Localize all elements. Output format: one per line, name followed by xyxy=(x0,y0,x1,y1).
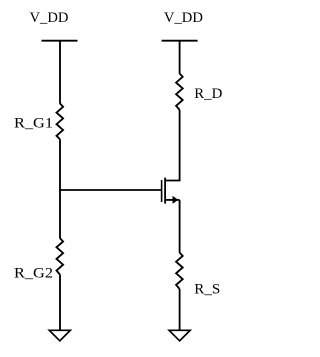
wire: R_G1 bottom to R_G2 top (through gate junction) xyxy=(59,139,61,238)
svg-text:R_S: R_S xyxy=(194,281,220,297)
power symbol V_DD (right rail bar) xyxy=(162,40,198,42)
wire: right rail down to R_D top xyxy=(179,41,181,74)
wire: R_D bottom down and left to MOSFET drain xyxy=(165,110,180,181)
svg-text:R_G1: R_G1 xyxy=(14,115,53,131)
wire: left rail down to R_G1 top xyxy=(59,41,61,104)
ground (right) xyxy=(169,330,190,341)
transistor M1 source lead xyxy=(165,199,180,201)
resistor R_S xyxy=(176,253,183,289)
ground (left) xyxy=(49,330,70,341)
transistor M1 channel bar xyxy=(164,178,166,204)
power symbol V_DD (left rail bar) xyxy=(42,40,78,42)
svg-text:V_DD: V_DD xyxy=(30,10,69,26)
svg-text:R_D: R_D xyxy=(194,86,222,102)
resistor R_G2 xyxy=(57,238,64,274)
wire: R_S bottom to right ground xyxy=(179,289,181,331)
transistor M1 source arrow xyxy=(173,196,179,204)
wire: R_G2 bottom to left ground xyxy=(59,275,61,331)
wire: MOSFET source down to R_S top xyxy=(179,200,181,253)
wire: gate wire from divider node to MOSFET gate xyxy=(59,189,161,191)
svg-text:R_G2: R_G2 xyxy=(14,265,53,281)
resistor R_G1 xyxy=(57,104,64,140)
resistor R_D xyxy=(176,74,183,110)
transistor M1 gate bar xyxy=(161,180,163,202)
svg-text:V_DD: V_DD xyxy=(164,10,203,26)
